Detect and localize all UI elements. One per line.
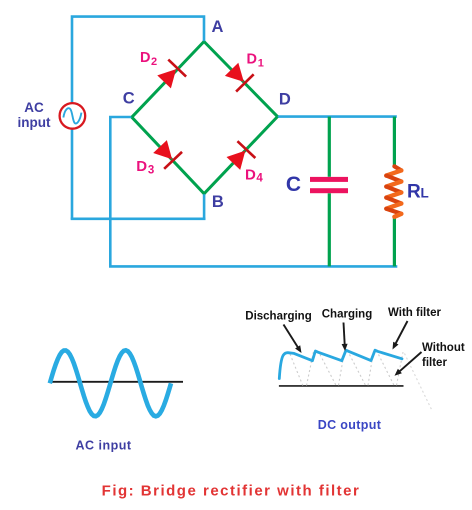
svg-text:AC: AC bbox=[24, 100, 44, 115]
arrow With filter bbox=[393, 321, 408, 350]
wire bridge arm C-B (green) bbox=[132, 117, 204, 194]
svg-text:AC input: AC input bbox=[75, 439, 131, 453]
wire capacitor top stub (green) bbox=[328, 117, 331, 177]
svg-text:1: 1 bbox=[258, 57, 264, 69]
diode D1 bbox=[223, 61, 254, 92]
label RL bbox=[407, 182, 429, 203]
svg-text:D: D bbox=[140, 50, 150, 66]
wire AC loop bottom (cyan) bbox=[71, 218, 206, 221]
capacitor C plates bbox=[310, 177, 348, 193]
wire node B stub down (cyan) bbox=[203, 194, 206, 220]
svg-text:D: D bbox=[279, 91, 291, 109]
svg-text:B: B bbox=[212, 193, 224, 211]
svg-text:Fig: Bridge rectifier with fil: Fig: Bridge rectifier with filter bbox=[102, 483, 361, 500]
wire node D branch to right (cyan) bbox=[278, 115, 397, 118]
svg-text:4: 4 bbox=[256, 172, 263, 184]
svg-text:D: D bbox=[247, 52, 257, 68]
diode D4 bbox=[224, 141, 255, 172]
svg-text:2: 2 bbox=[151, 56, 157, 68]
svg-text:C: C bbox=[286, 173, 301, 196]
svg-text:Charging: Charging bbox=[322, 309, 372, 321]
wire resistor bottom stub (green) bbox=[393, 216, 396, 266]
wire AC loop left/top (cyan) bbox=[72, 17, 204, 220]
without-filter trailing dashed line bbox=[405, 354, 433, 411]
svg-text:L: L bbox=[421, 186, 429, 201]
AC input waveform axis bbox=[50, 381, 184, 383]
svg-text:D: D bbox=[245, 166, 256, 183]
svg-text:D: D bbox=[136, 158, 147, 175]
wire node C branch to load bottom (cyan) bbox=[110, 117, 397, 266]
arrow Discharging bbox=[284, 325, 302, 354]
AC input sine wave bbox=[50, 350, 171, 416]
label D4 bbox=[245, 166, 263, 184]
label Without filter bbox=[422, 342, 465, 369]
resistor RL zigzag bbox=[386, 166, 401, 217]
label D3 bbox=[136, 158, 154, 177]
svg-text:DC output: DC output bbox=[318, 418, 382, 432]
svg-text:Discharging: Discharging bbox=[245, 311, 311, 323]
svg-text:C: C bbox=[123, 90, 135, 108]
arrow Without filter bbox=[395, 352, 422, 376]
wire resistor top stub (green) bbox=[393, 117, 396, 167]
svg-text:R: R bbox=[407, 182, 421, 203]
DC output filtered ripple wave bbox=[279, 350, 402, 378]
wire bridge arm A-D (green) bbox=[204, 42, 278, 117]
svg-text:3: 3 bbox=[148, 164, 154, 176]
svg-text:input: input bbox=[18, 115, 51, 130]
diode D2 bbox=[155, 60, 186, 91]
svg-text:filter: filter bbox=[422, 357, 447, 369]
label D1 bbox=[247, 52, 264, 70]
label D2 bbox=[140, 50, 157, 68]
svg-text:A: A bbox=[211, 18, 223, 36]
DC output axis bbox=[279, 385, 404, 387]
AC source V1 bbox=[60, 103, 86, 129]
wire bridge arm A-C (green) bbox=[132, 42, 204, 118]
label AC input bbox=[18, 100, 51, 130]
diode D3 bbox=[151, 138, 182, 169]
wire bridge arm B-D (green) bbox=[204, 117, 277, 194]
svg-text:Without: Without bbox=[422, 342, 465, 354]
wire capacitor bottom stub (green) bbox=[328, 193, 331, 266]
arrow Charging bbox=[342, 323, 348, 352]
without-filter dotted humps bbox=[290, 351, 403, 386]
svg-text:With filter: With filter bbox=[388, 307, 441, 319]
